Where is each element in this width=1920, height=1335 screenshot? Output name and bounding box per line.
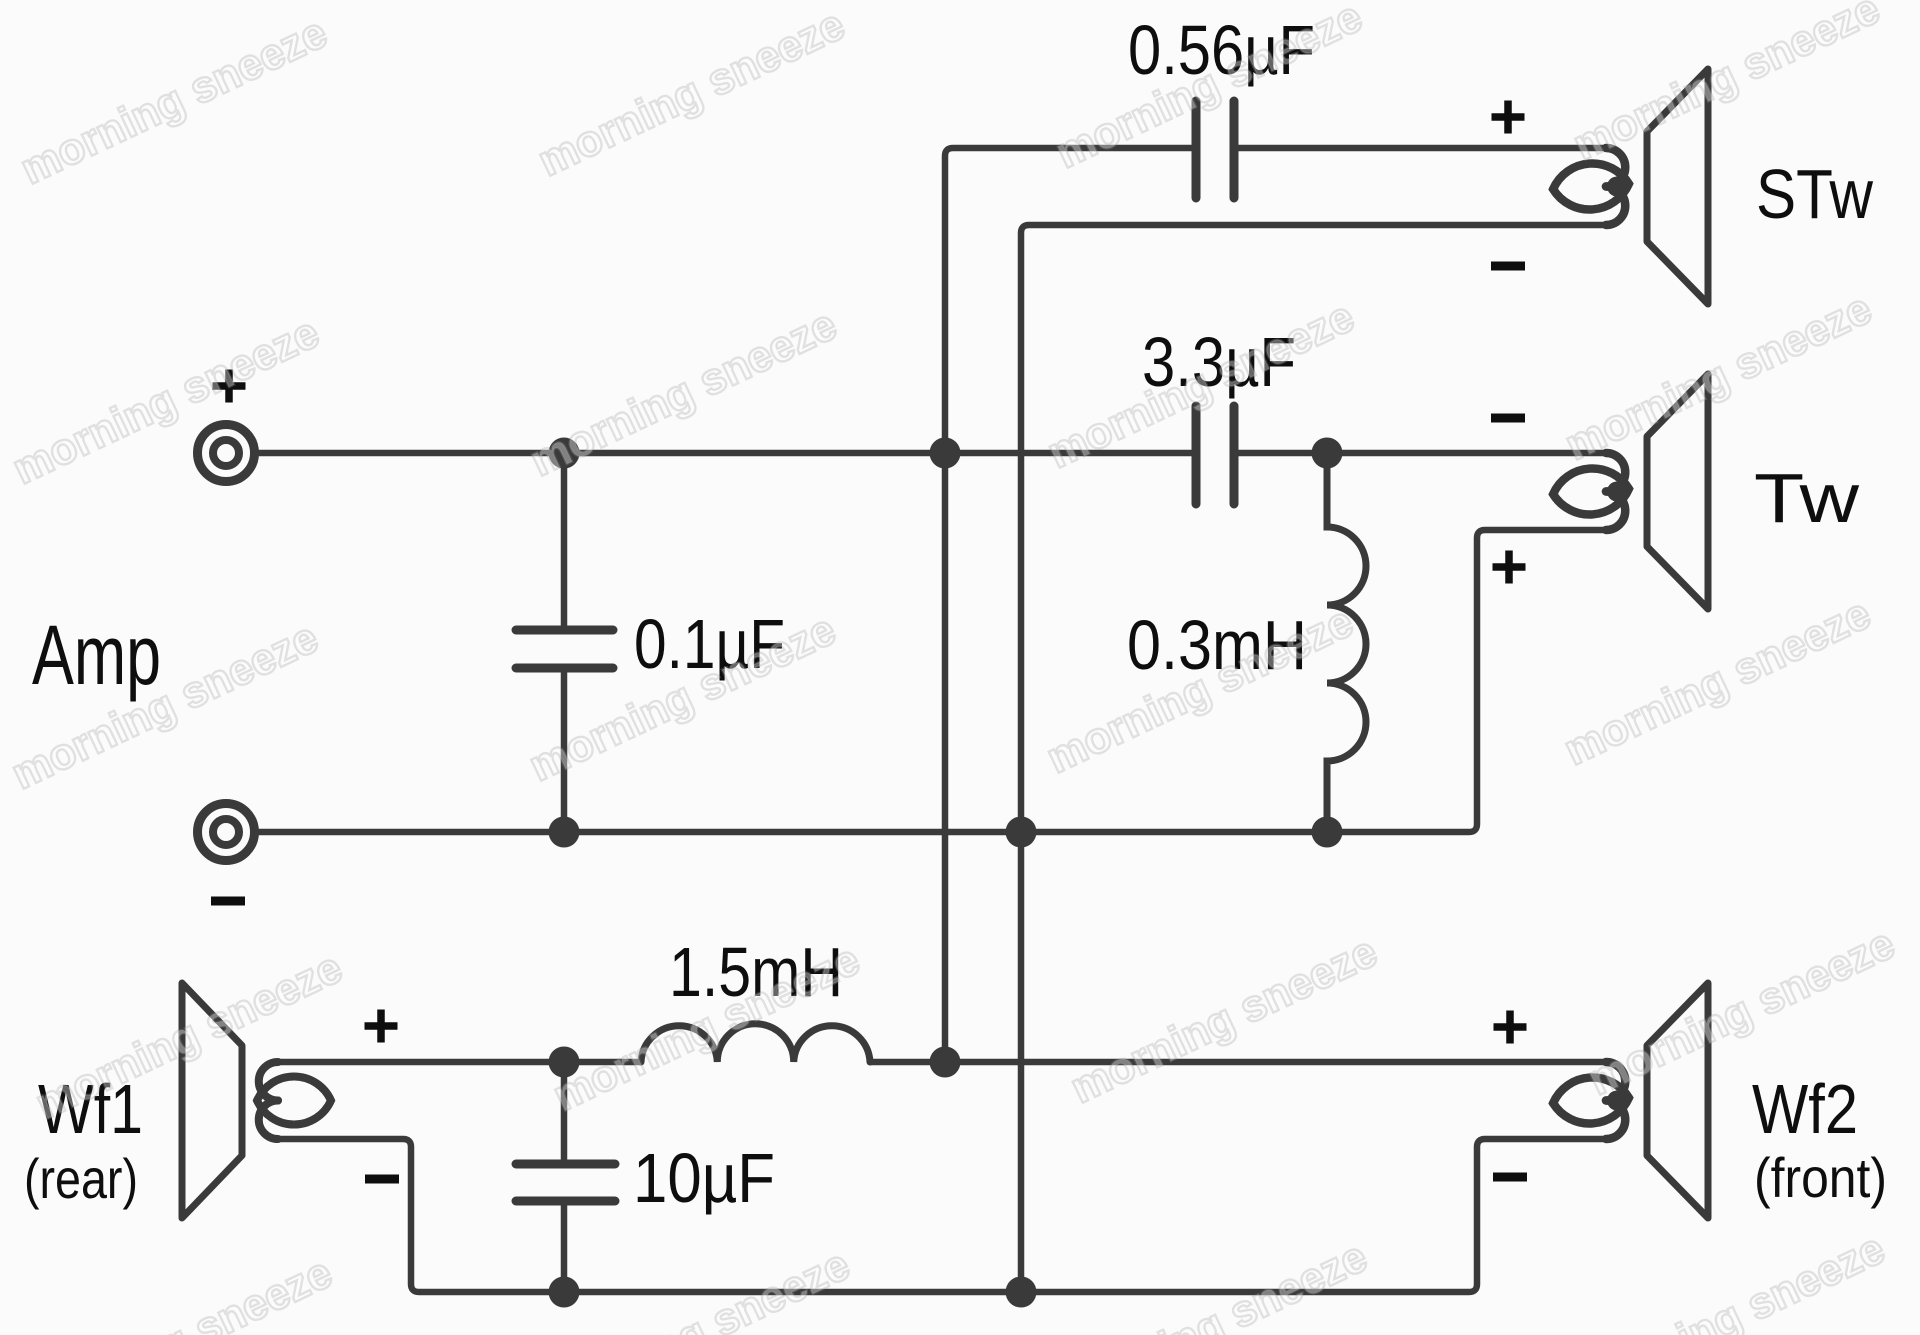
wire: woofer minus loop Wf1 to Wf2 (276, 1139, 1608, 1292)
inductor L2 1.5mH (641, 1024, 870, 1062)
svg-text:Wf2: Wf2 (1752, 1070, 1858, 1148)
node: + rail / risers (930, 438, 961, 469)
node: + rail / 0.1uF (549, 438, 580, 469)
value label 0.1uF (634, 605, 785, 683)
capacitor C2 3.3uF (1196, 406, 1234, 504)
svg-text:(rear): (rear) (24, 1147, 138, 1210)
Wf1 polarity mark - (365, 1175, 399, 1184)
inductor L1 0.3mH (1327, 453, 1366, 832)
Wf1 polarity mark + (365, 1010, 398, 1043)
node: bottom rail / 10uF (549, 1277, 580, 1308)
wire: woofer + rail left (Wf1 plus to 1.5mH) (276, 1059, 641, 1066)
speaker Wf2 voice-coil loop (1551, 1062, 1630, 1139)
wire: 0.56uF output to STw plus (1238, 145, 1608, 152)
value label 0.56uF (1128, 11, 1315, 89)
wire: 10uF branch lower (561, 1204, 568, 1292)
speaker Wf1 voice-coil loop (257, 1062, 331, 1139)
node: - rail / 0.3mH bottom (1312, 817, 1343, 848)
speaker Wf2 cone (1647, 983, 1708, 1218)
svg-text:STw: STw (1756, 155, 1873, 233)
node: - rail / STw return (1006, 817, 1037, 848)
value label 10uF (633, 1139, 775, 1217)
wire: 0.1uF shunt branch lower (561, 671, 568, 832)
svg-text:10µF: 10µF (633, 1139, 775, 1217)
wire: riser from + rail down to woofer rail (942, 453, 949, 1062)
capacitor C4 10uF (516, 1164, 615, 1201)
speaker Tw voice-coil loop (1551, 453, 1630, 530)
STw polarity mark + (1492, 101, 1525, 134)
Tw polarity mark - (1491, 414, 1525, 423)
node: woofer rail / riser (930, 1047, 961, 1078)
speaker STw voice-coil loop (1551, 148, 1630, 225)
wire: STw minus return down to bottom rail (1021, 225, 1608, 1292)
amp - polarity mark - (211, 897, 245, 906)
amp + binding-post terminal (198, 425, 255, 482)
speaker STw cone (1647, 69, 1708, 304)
node: - rail / 0.1uF (549, 817, 580, 848)
value label 3.3uF (1142, 323, 1296, 401)
wire: amp + rail (259, 450, 1193, 457)
amp + polarity mark + (213, 370, 246, 403)
wire: 0.1uF shunt branch upper (561, 453, 568, 627)
capacitor C1 0.56uF (1196, 101, 1234, 198)
wire: amp - rail and riser to Tw plus (259, 530, 1608, 832)
node: woofer rail / Wf1 / 10uF (549, 1047, 580, 1078)
Wf2 polarity mark - (1493, 1173, 1527, 1182)
Tw polarity mark + (1493, 551, 1526, 584)
amp - binding-post terminal (198, 804, 255, 861)
wire: woofer + rail right (1.5mH to Wf2 plus) (870, 1059, 1608, 1066)
svg-text:(front): (front) (1754, 1146, 1887, 1209)
svg-text:Amp: Amp (32, 608, 161, 702)
speaker Tw cone (1647, 374, 1708, 609)
Wf2 polarity mark + (1494, 1011, 1527, 1044)
wire: riser from + rail up to 0.56uF (945, 148, 1191, 453)
STw polarity mark - (1491, 262, 1525, 271)
wire: 10uF branch upper (561, 1062, 568, 1161)
node: + rail / 0.3mH top (1312, 438, 1343, 469)
wire: 3.3uF output to Tw minus (1238, 450, 1608, 457)
capacitor C3 0.1uF (516, 630, 613, 668)
svg-text:Tw: Tw (1754, 459, 1860, 537)
node: bottom rail / STw return (1006, 1277, 1037, 1308)
speaker Wf1 cone (182, 983, 242, 1218)
